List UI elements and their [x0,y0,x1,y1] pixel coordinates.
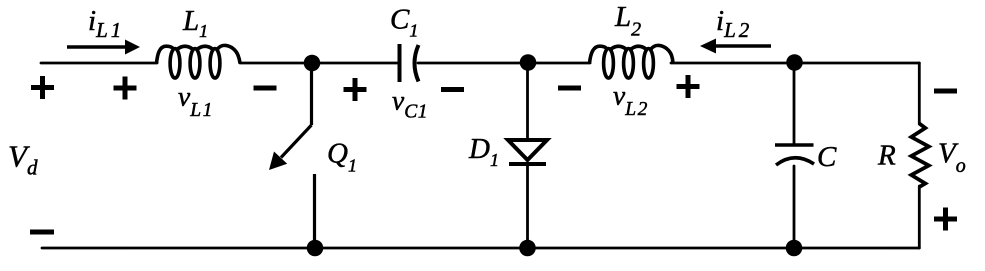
minus sign input bottom left [30,230,54,235]
node dot top of capacitor C [786,54,803,71]
svg-text:vL2: vL2 [613,80,649,121]
svg-text:Vd: Vd [8,139,38,180]
minus sign vL2 [558,86,581,91]
node dot bottom of capacitor C [786,240,803,257]
plus sign vC1 [344,78,367,101]
wire bottom rail [42,247,919,250]
inductor L1 [157,45,241,78]
node dot top of switch [304,55,321,72]
switch Q1 blade [281,64,312,158]
svg-text:R: R [877,140,896,172]
wire right side vertical bottom [918,186,921,248]
wire diode bottom segment [526,164,529,248]
svg-text:vC1: vC1 [392,85,428,123]
diode D1 [508,140,547,164]
wire top rail left segment [41,62,157,65]
minus sign vL1 [254,86,277,91]
wire top rail C1 to L2 [418,62,590,65]
current arrow iL1 [67,40,140,55]
plus sign vL2 [677,75,700,98]
plus sign vL1 [114,77,137,100]
current arrow iL2 [700,39,771,54]
wire capacitor C top segment [793,63,796,145]
capacitor C (shunt) [775,145,814,165]
minus sign vC1 [441,87,464,92]
svg-text:C: C [817,141,837,173]
wire right side vertical top [918,63,921,124]
switch Q1 lower pole wire [313,174,316,248]
minus sign Vo top [934,89,957,94]
svg-text:iL1: iL1 [88,5,124,42]
capacitor C1 (series) [400,44,419,82]
svg-text:L2: L2 [614,1,641,41]
node dot bottom of diode [519,240,536,257]
inductor L2 [590,45,674,78]
svg-text:Vo: Vo [938,138,966,178]
plus sign input left [31,76,54,99]
svg-text:iL2: iL2 [716,5,752,42]
wire diode top segment [526,63,529,140]
svg-text:L1: L1 [182,5,208,41]
wire top rail L1 to C1 [240,62,400,65]
switch Q1 arrowhead [269,152,287,171]
node dot top of diode [520,54,537,71]
wire capacitor C bottom segment [793,166,796,248]
resistor R zigzag [911,124,929,188]
svg-text:vL1: vL1 [178,81,214,122]
wire top rail L2 to right corner [671,62,919,65]
svg-text:C1: C1 [390,4,418,41]
svg-text:D1: D1 [468,133,499,170]
node dot bottom of switch [307,240,324,257]
plus sign Vo bottom [934,208,957,231]
svg-text:Q1: Q1 [327,138,357,176]
